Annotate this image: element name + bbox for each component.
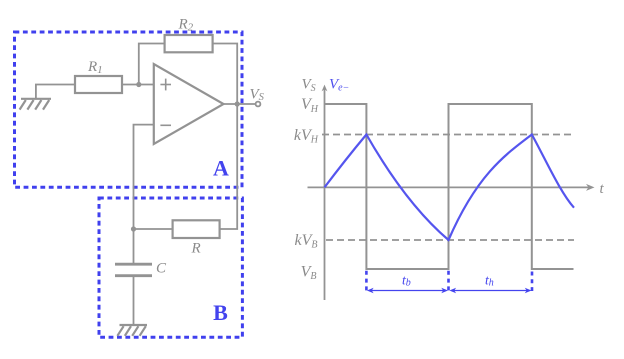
label B xyxy=(213,300,228,325)
wire junction to capacitor xyxy=(133,229,135,263)
terminal VS open circle xyxy=(256,102,261,107)
node RC junction xyxy=(131,226,136,231)
arrow th xyxy=(449,288,531,293)
label VH xyxy=(301,96,319,115)
svg-text:R: R xyxy=(191,241,201,257)
svg-text:R1: R1 xyxy=(87,59,103,76)
svg-text:B: B xyxy=(213,300,228,325)
resistor R xyxy=(173,220,220,256)
label kVB xyxy=(295,232,318,251)
wire feedback to R xyxy=(220,104,237,229)
svg-text:kVB: kVB xyxy=(295,232,318,251)
svg-text:VS: VS xyxy=(250,86,265,103)
block A dashed box xyxy=(15,32,243,187)
wire ground to R1 xyxy=(36,85,75,99)
dashed level kVH xyxy=(322,134,575,136)
guide dashed tb right xyxy=(447,271,450,291)
wire R1 to noninverting input xyxy=(122,84,154,86)
graph horizontal axis xyxy=(308,184,595,191)
label Ve- axis xyxy=(329,76,349,93)
capacitor C xyxy=(115,261,167,277)
svg-text:t: t xyxy=(600,181,605,197)
label VS output xyxy=(250,86,265,103)
wire capacitor to ground xyxy=(133,277,135,325)
svg-text:C: C xyxy=(156,261,167,277)
svg-text:VH: VH xyxy=(301,96,319,115)
waveform Ve- curve xyxy=(325,135,575,241)
wire output xyxy=(224,103,256,105)
wire R2 to output node xyxy=(213,44,238,105)
node output junction xyxy=(235,101,240,106)
op-amp U1 xyxy=(154,64,224,144)
svg-text:A: A xyxy=(213,156,229,181)
svg-text:tb: tb xyxy=(402,272,411,288)
guide dashed th right xyxy=(531,272,534,292)
svg-text:th: th xyxy=(485,272,494,288)
svg-text:R2: R2 xyxy=(178,17,194,34)
wire junction to R xyxy=(134,228,173,230)
graph vertical axis xyxy=(322,85,328,300)
node plus-input junction xyxy=(136,82,141,87)
svg-text:VS: VS xyxy=(302,77,316,94)
svg-text:kVH: kVH xyxy=(294,127,319,146)
svg-text:Ve−: Ve− xyxy=(329,76,349,93)
label tb xyxy=(402,272,411,288)
label kVH xyxy=(294,127,319,146)
resistor R2 xyxy=(165,17,213,53)
block B dashed box xyxy=(99,198,242,337)
arrow tb xyxy=(367,288,448,293)
square wave VS xyxy=(325,104,574,269)
wire inverting input down xyxy=(134,125,154,229)
dashed level kVB xyxy=(326,239,574,241)
svg-text:VB: VB xyxy=(301,263,317,282)
label t axis xyxy=(600,181,605,197)
ground xyxy=(20,99,51,110)
label VB xyxy=(301,263,317,282)
wire junction to R2 xyxy=(139,44,165,85)
ground xyxy=(117,325,147,336)
guide dashed tb left xyxy=(365,271,368,291)
label VS axis xyxy=(302,77,316,94)
label th xyxy=(485,272,494,288)
label A xyxy=(213,156,229,181)
resistor R1 xyxy=(75,59,122,93)
